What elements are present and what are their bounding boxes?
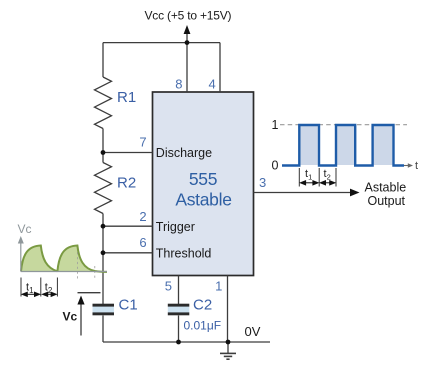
svg-text:Output: Output [368,194,406,208]
svg-text:Astable: Astable [175,189,231,209]
svg-text:7: 7 [139,135,146,150]
svg-text:Vc: Vc [18,222,32,236]
svg-text:R2: R2 [117,174,136,191]
svg-text:0: 0 [272,159,279,173]
svg-text:0V: 0V [245,324,261,339]
svg-text:1: 1 [272,118,279,132]
svg-text:1: 1 [215,279,222,294]
svg-text:C2: C2 [193,297,212,314]
svg-text:6: 6 [139,235,146,250]
svg-text:R1: R1 [117,89,136,106]
svg-text:Threshold: Threshold [156,246,212,260]
svg-text:3: 3 [259,175,266,190]
svg-text:t2: t2 [45,282,53,296]
svg-text:Astable: Astable [365,181,407,195]
svg-text:t1: t1 [305,168,312,182]
svg-text:555: 555 [189,169,217,189]
svg-text:t2: t2 [324,168,331,182]
svg-text:8: 8 [175,77,182,92]
svg-text:0.01μF: 0.01μF [184,319,222,333]
svg-text:t: t [415,160,418,172]
svg-text:Discharge: Discharge [156,146,212,160]
svg-text:Vcc (+5 to +15V): Vcc (+5 to +15V) [145,9,232,23]
svg-text:C1: C1 [119,297,138,314]
svg-text:Trigger: Trigger [156,220,195,234]
svg-text:2: 2 [139,209,146,224]
svg-text:5: 5 [165,279,172,294]
svg-text:4: 4 [208,77,215,92]
svg-text:Vc: Vc [63,310,78,324]
svg-text:t1: t1 [26,282,34,296]
